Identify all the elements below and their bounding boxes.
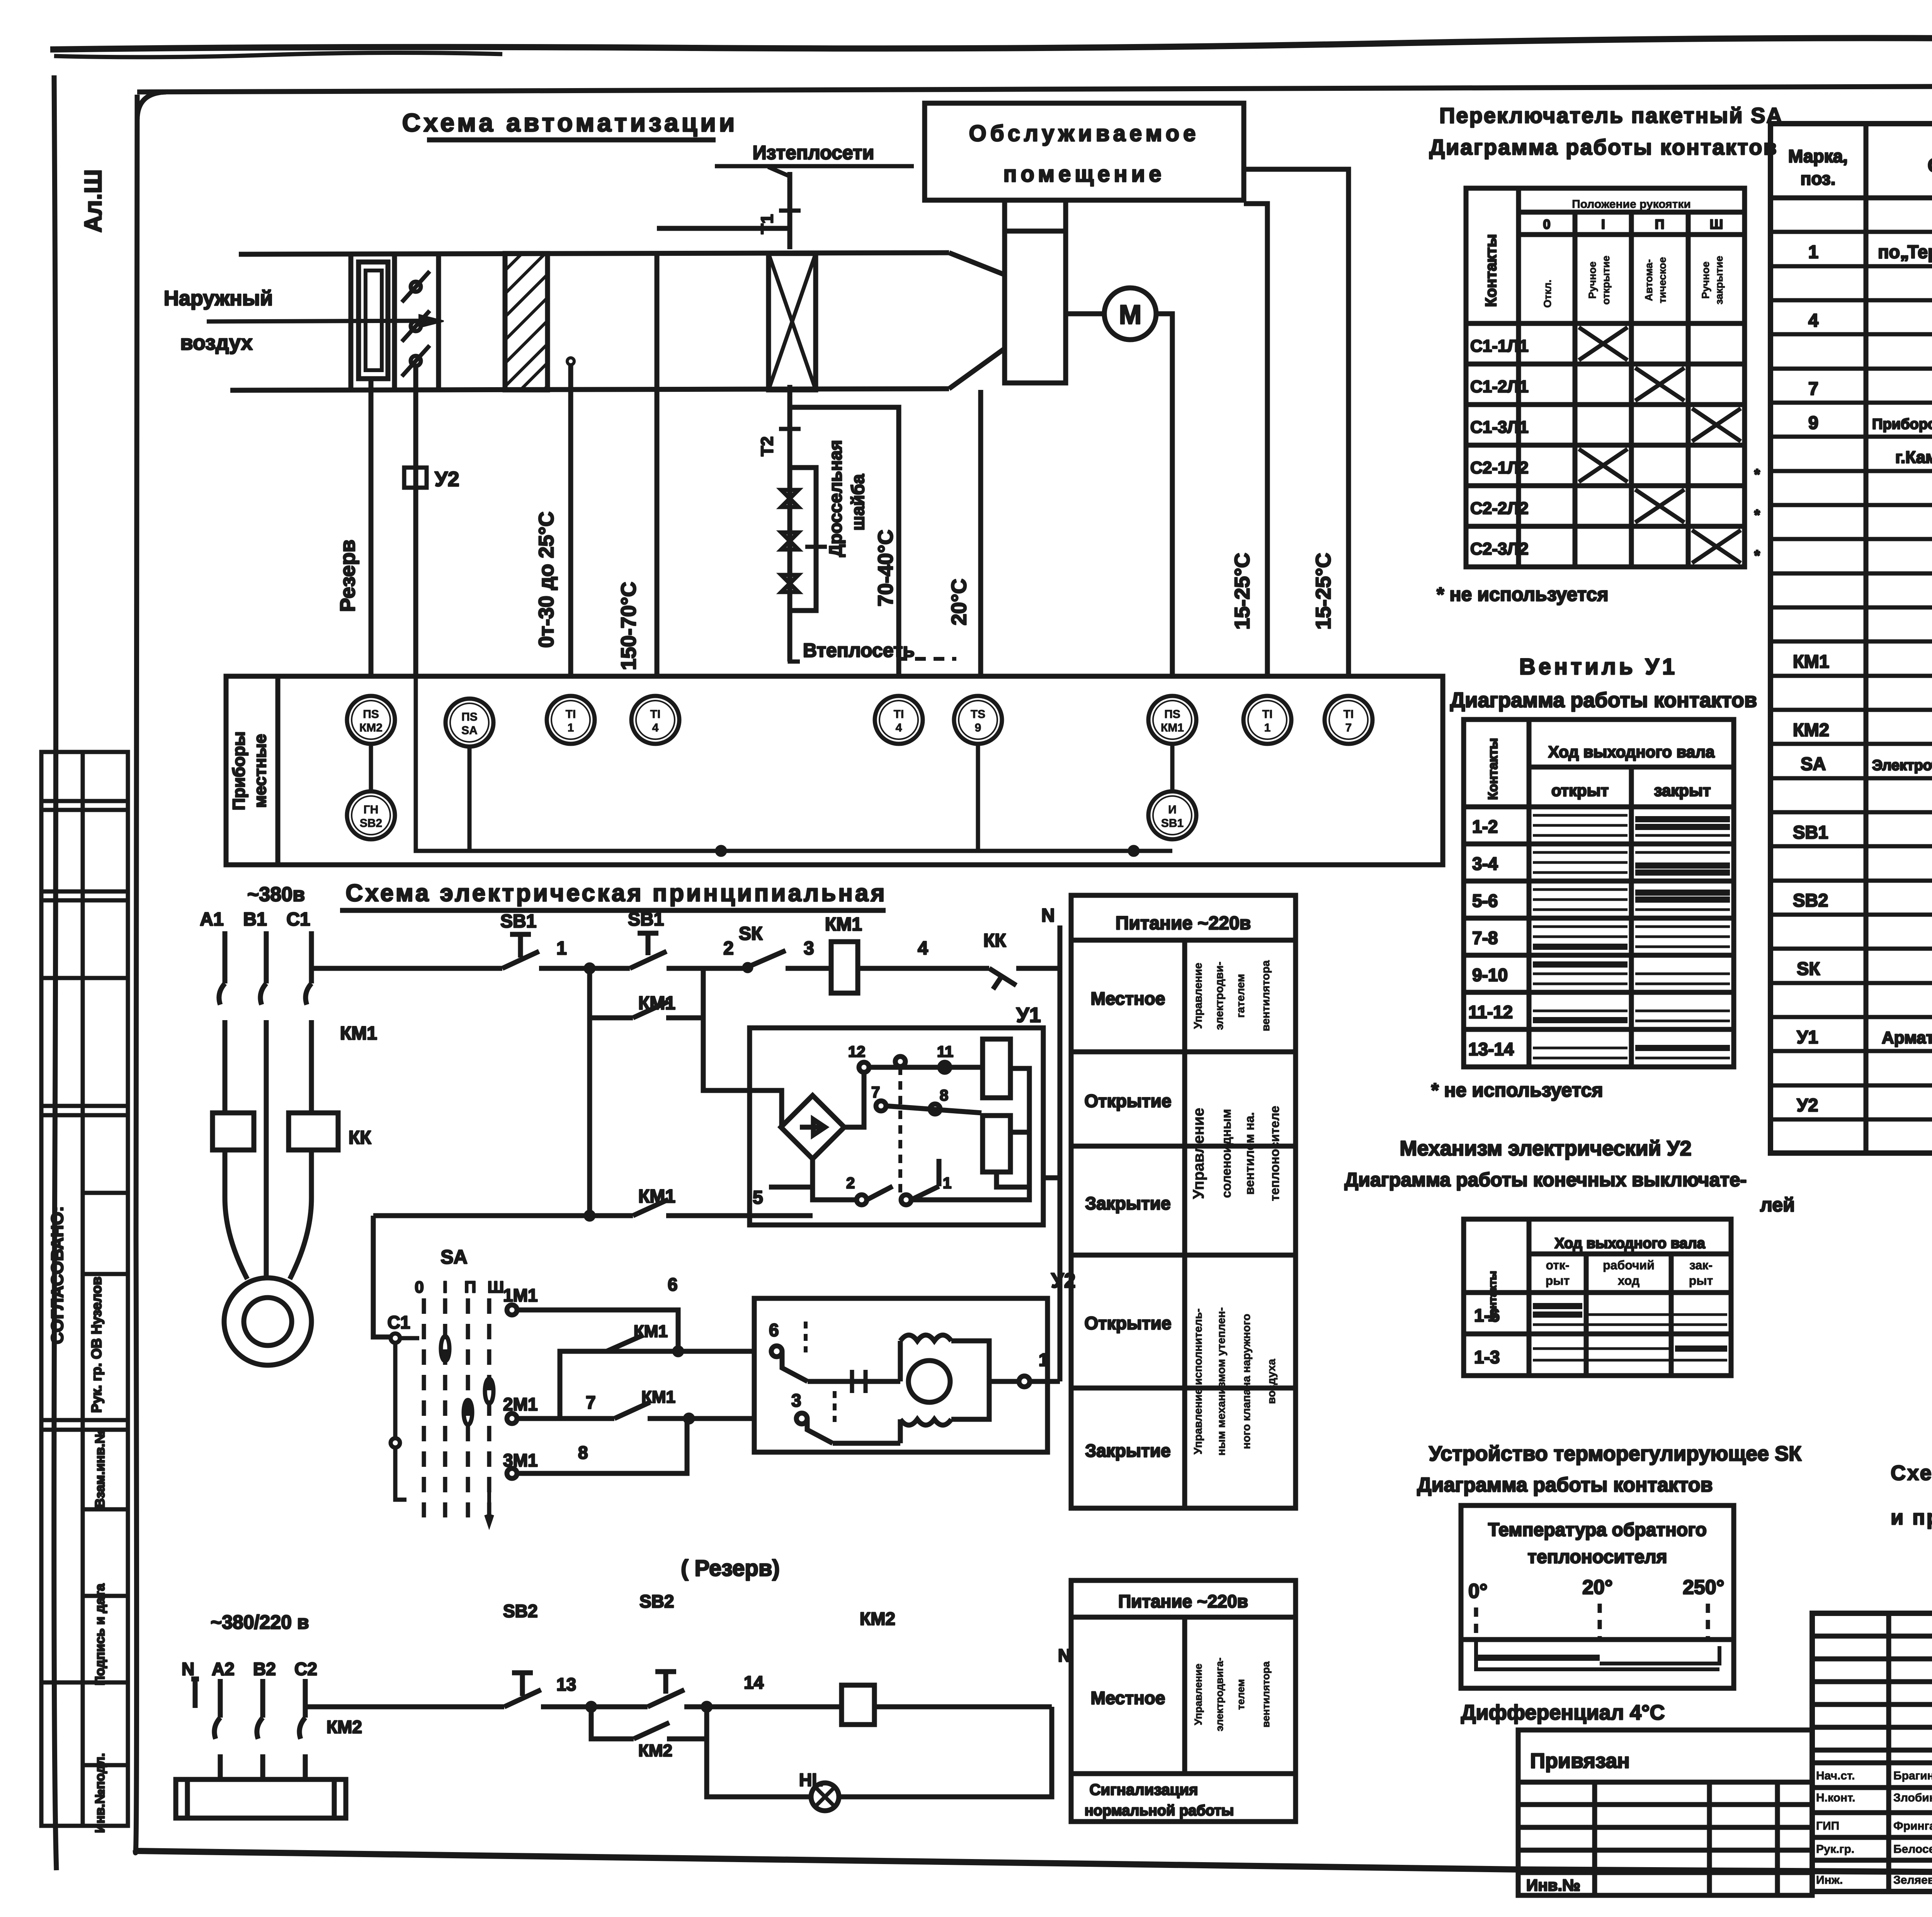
KK thermal contact <box>975 968 1060 989</box>
svg-text:вентилятора: вентилятора <box>1260 960 1272 1031</box>
svg-text:нормальной работы: нормальной работы <box>1085 1803 1234 1819</box>
spec rows content <box>1793 208 1932 1150</box>
svg-text:КМ2: КМ2 <box>1793 720 1829 740</box>
svg-text:Местное: Местное <box>1091 1688 1165 1708</box>
svg-text:SВ1: SВ1 <box>628 909 664 930</box>
svg-text:Сигнализация: Сигнализация <box>1090 1781 1198 1798</box>
terminal strip <box>176 1779 346 1818</box>
svg-text:1: 1 <box>1808 242 1818 262</box>
svg-text:4: 4 <box>918 938 928 959</box>
svg-text:Переключатель пакетный SА: Переключатель пакетный SА <box>1439 103 1783 128</box>
svg-text:вентилем на.: вентилем на. <box>1242 1112 1257 1195</box>
svg-text:*: * <box>1754 507 1760 523</box>
svg-text:С2-2Л2: С2-2Л2 <box>1470 499 1529 518</box>
bus wire inside box <box>371 676 1172 855</box>
svg-text:закрыт: закрыт <box>1654 781 1711 799</box>
svg-text:1: 1 <box>1039 1350 1049 1370</box>
svg-text:СОГЛАСОВАНО:: СОГЛАСОВАНО: <box>48 1206 67 1344</box>
svg-text:С2: С2 <box>294 1659 317 1679</box>
svg-text:С1-1Л1: С1-1Л1 <box>1470 337 1529 356</box>
svg-text:поз.: поз. <box>1801 168 1836 189</box>
blades with pivots <box>402 271 430 376</box>
svg-text:ТI: ТI <box>894 708 904 721</box>
phase B1 <box>260 931 266 1279</box>
svg-text:7: 7 <box>871 1084 880 1101</box>
svg-text:С2-3Л2: С2-3Л2 <box>1470 539 1529 558</box>
svg-text:теплоносителе: теплоносителе <box>1267 1106 1282 1201</box>
TI4-2 sensor riser <box>790 407 899 676</box>
svg-text:SК: SК <box>739 924 763 944</box>
svg-text:П: П <box>464 1278 476 1296</box>
svg-text:воздуха: воздуха <box>1265 1359 1278 1404</box>
svg-text:Ал.Ш: Ал.Ш <box>80 169 107 233</box>
svg-text:Схемы составлены для одной при: Схемы составлены для одной приточной сис… <box>1891 1461 1932 1485</box>
bottom contacts <box>857 1195 867 1205</box>
svg-text:Изтеплосети: Изтеплосети <box>753 142 874 163</box>
svg-text:Ручное: Ручное <box>1700 262 1711 299</box>
bypass with orifice <box>790 468 816 611</box>
svg-text:Привязан: Привязан <box>1530 1749 1630 1772</box>
valve Y1 box <box>750 1028 1043 1225</box>
svg-text:~380в: ~380в <box>247 883 305 906</box>
svg-text:Положение рукоятки: Положение рукоятки <box>1572 198 1691 211</box>
svg-text:Приборостроительный завод,: Приборостроительный завод, <box>1872 416 1932 432</box>
svg-text:Втеплосеть: Втеплосеть <box>803 640 915 661</box>
svg-text:SК: SК <box>1797 958 1820 979</box>
return pipe T2 with valves <box>787 385 793 662</box>
KM1 aux branch <box>590 968 703 1018</box>
phase C1 <box>306 931 311 1113</box>
svg-text:М: М <box>1119 299 1141 330</box>
svg-text:Открытие: Открытие <box>1084 1313 1171 1333</box>
connector duct room to fan <box>1002 200 1007 231</box>
svg-text:1: 1 <box>568 721 574 734</box>
Y2 actuator line <box>413 366 418 676</box>
KM2 coil <box>842 1685 874 1725</box>
svg-text:I: I <box>443 1278 447 1296</box>
svg-text:0: 0 <box>1543 217 1551 232</box>
svg-text:3-4: 3-4 <box>1472 854 1498 874</box>
svg-text:Температура обратного: Температура обратного <box>1488 1520 1707 1540</box>
svg-text:7-8: 7-8 <box>1472 928 1498 948</box>
svg-text:~380/220 в: ~380/220 в <box>211 1611 309 1633</box>
Y2 mechanism box <box>754 1298 1060 1452</box>
valve 1 <box>781 490 798 507</box>
svg-text:Устройство терморегулирующее S: Устройство терморегулирующее SК <box>1429 1442 1802 1465</box>
svg-text:вентилятора: вентилятора <box>1260 1661 1272 1727</box>
motor M big <box>224 1278 311 1365</box>
svg-text:С2-1Л2: С2-1Л2 <box>1470 458 1529 477</box>
header texts <box>1788 130 1932 189</box>
svg-text:по„Термоприбор“,: по„Термоприбор“, <box>1878 242 1932 262</box>
svg-text:ПS: ПS <box>461 711 478 723</box>
svg-text:Обозначение: Обозначение <box>1928 155 1932 176</box>
svg-text:250°: 250° <box>1683 1576 1725 1599</box>
damper reserve line <box>369 379 374 676</box>
svg-text:Открытие: Открытие <box>1084 1091 1171 1111</box>
branch 5 <box>373 1213 813 1218</box>
svg-text:1: 1 <box>943 1175 951 1192</box>
svg-text:Управление: Управление <box>1192 1664 1204 1725</box>
svg-text:А2: А2 <box>212 1659 235 1679</box>
svg-text:70-40°С: 70-40°С <box>874 530 897 607</box>
svg-text:Н.конт.: Н.конт. <box>1816 1791 1855 1804</box>
svg-text:Т1: Т1 <box>758 214 777 234</box>
svg-text:15-25°С: 15-25°С <box>1231 553 1254 630</box>
svg-text:6: 6 <box>769 1320 779 1340</box>
svg-text:SВ2: SВ2 <box>1793 890 1828 910</box>
svg-text:SВ1: SВ1 <box>1793 822 1828 842</box>
svg-text:КМ1: КМ1 <box>1161 721 1184 734</box>
svg-text:тическое: тическое <box>1656 257 1668 303</box>
TI7 wire <box>1244 169 1349 676</box>
svg-text:У1: У1 <box>1016 1004 1041 1027</box>
svg-text:КК: КК <box>349 1128 371 1148</box>
lamp branch <box>707 1707 811 1797</box>
junction <box>586 965 593 972</box>
svg-text:помещение: помещение <box>1003 162 1165 187</box>
svg-text:4: 4 <box>896 721 902 734</box>
TI1 riser <box>568 363 573 676</box>
svg-text:15-25°С: 15-25°С <box>1312 553 1335 630</box>
frame inner left line <box>135 95 137 1853</box>
fan casing <box>1005 231 1066 383</box>
svg-text:* не используется: * не используется <box>1431 1079 1603 1101</box>
svg-text:Автома-: Автома- <box>1643 259 1655 301</box>
svg-text:гателем: гателем <box>1235 974 1247 1018</box>
svg-text:Ручное: Ручное <box>1587 262 1598 299</box>
row lines <box>1770 232 1932 1119</box>
border top wavy line <box>50 37 1932 49</box>
svg-text:9-10: 9-10 <box>1472 965 1508 985</box>
instruments box <box>226 676 1443 865</box>
svg-text:электродвига-: электродвига- <box>1214 1657 1225 1731</box>
svg-text:У2: У2 <box>1797 1095 1818 1115</box>
svg-text:Закрытие: Закрытие <box>1085 1441 1170 1461</box>
N line <box>1058 925 1063 1381</box>
svg-text:12: 12 <box>848 1043 866 1060</box>
svg-text:5: 5 <box>753 1187 763 1208</box>
svg-text:Т2: Т2 <box>758 436 777 456</box>
svg-text:КМ2: КМ2 <box>327 1717 362 1737</box>
svg-text:Инж.: Инж. <box>1816 1874 1843 1886</box>
svg-text:1-3: 1-3 <box>1474 1347 1500 1367</box>
instrument circles <box>347 696 1372 839</box>
svg-text:Белосеева: Белосеева <box>1893 1843 1932 1856</box>
svg-text:Ход выходного вала: Ход выходного вала <box>1554 1235 1705 1252</box>
svg-text:* не используется: * не используется <box>1437 583 1609 605</box>
svg-text:Механизм электрический У2: Механизм электрический У2 <box>1400 1137 1691 1160</box>
SB1 stop button <box>502 934 539 968</box>
svg-text:закрытие: закрытие <box>1713 256 1725 304</box>
svg-text:Управление исполнитель-: Управление исполнитель- <box>1192 1308 1204 1454</box>
svg-text:г.Каменец-Подольский: г.Каменец-Подольский <box>1895 448 1932 467</box>
svg-text:Нач.ст.: Нач.ст. <box>1816 1769 1855 1782</box>
svg-text:3: 3 <box>791 1390 801 1410</box>
main rung <box>311 966 502 971</box>
svg-text:Брагинский: Брагинский <box>1893 1769 1932 1782</box>
svg-text:П: П <box>1655 217 1664 232</box>
svg-text:Контакты: Контакты <box>1486 738 1500 800</box>
svg-text:14: 14 <box>744 1672 764 1692</box>
svg-text:Диаграмма работы конечных выкл: Диаграмма работы конечных выключате- <box>1345 1169 1747 1191</box>
fan cone <box>949 253 1005 275</box>
svg-text:Вентиль У1: Вентиль У1 <box>1519 654 1678 679</box>
svg-text:*: * <box>1754 548 1760 564</box>
Y2 drive rows <box>507 1305 754 1478</box>
svg-text:SВ2: SВ2 <box>503 1601 537 1621</box>
svg-text:ГН: ГН <box>364 803 379 816</box>
svg-text:ТI: ТI <box>566 708 576 721</box>
svg-text:0т-30 до 25°С: 0т-30 до 25°С <box>535 512 558 648</box>
Y2 actuator box <box>404 468 427 488</box>
svg-text:КМ1: КМ1 <box>1793 651 1829 672</box>
svg-text:рабочий: рабочий <box>1603 1258 1655 1272</box>
svg-text:Управление: Управление <box>1190 1108 1207 1199</box>
svg-text:Рук.гр.: Рук.гр. <box>1816 1843 1854 1856</box>
frame bottom line <box>135 1851 1932 1876</box>
svg-text:Питание ~220в: Питание ~220в <box>1116 913 1251 934</box>
svg-text:9: 9 <box>975 721 981 734</box>
svg-text:ным механизмом утеплен-: ным механизмом утеплен- <box>1215 1307 1228 1456</box>
svg-text:20°: 20° <box>1582 1576 1613 1599</box>
TS9 riser <box>978 390 983 676</box>
svg-text:В2: В2 <box>253 1659 276 1679</box>
dashed link <box>898 1067 902 1198</box>
svg-text:7: 7 <box>1345 721 1352 734</box>
svg-text:0°: 0° <box>1468 1580 1488 1602</box>
svg-text:1: 1 <box>1264 721 1271 734</box>
TI1-2 wire <box>1244 204 1267 676</box>
row labels <box>1470 337 1760 564</box>
svg-text:0: 0 <box>415 1278 423 1296</box>
svg-text:ного клапана наружного: ного клапана наружного <box>1240 1314 1253 1449</box>
svg-text:отк-: отк- <box>1546 1258 1569 1272</box>
svg-text:150-70°С: 150-70°С <box>617 582 640 670</box>
svg-text:ТS: ТS <box>971 708 985 721</box>
main block <box>1812 1613 1932 1891</box>
svg-text:I: I <box>1601 217 1605 232</box>
damper (louver) <box>359 262 388 379</box>
SB1 start button <box>630 933 667 968</box>
terminals <box>859 1062 869 1072</box>
svg-text:лей: лей <box>1760 1194 1795 1216</box>
svg-text:КМ2: КМ2 <box>638 1741 672 1760</box>
motor circle <box>1104 288 1156 340</box>
damper section line <box>349 253 354 390</box>
svg-text:Резерв: Резерв <box>336 539 359 612</box>
svg-text:КМ1: КМ1 <box>638 1186 675 1207</box>
svg-text:8: 8 <box>578 1442 588 1463</box>
svg-text:5-6: 5-6 <box>1472 891 1498 911</box>
svg-text:Диаграмма работы контактов: Диаграмма работы контактов <box>1450 689 1757 712</box>
svg-text:Электротехнический завод,: Электротехнический завод, <box>1872 757 1932 774</box>
svg-text:Обслуживаемое: Обслуживаемое <box>969 121 1200 146</box>
KM2 aux <box>591 1707 707 1739</box>
svg-text:В1: В1 <box>243 909 267 930</box>
svg-text:Закрытие: Закрытие <box>1085 1193 1170 1213</box>
motor wire <box>1066 311 1104 316</box>
valve 3 <box>781 575 798 592</box>
svg-text:13-14: 13-14 <box>1468 1039 1514 1059</box>
svg-text:С1-2Л1: С1-2Л1 <box>1470 377 1529 396</box>
svg-text:*: * <box>1754 466 1760 483</box>
В теплосеть bracket <box>790 641 800 662</box>
svg-text:1: 1 <box>556 938 567 959</box>
KK heater elements <box>213 1113 254 1150</box>
svg-text:КМ1: КМ1 <box>825 914 862 935</box>
svg-text:и применимы для систем П2,П5: и применимы для систем П2,П5 <box>1891 1506 1932 1529</box>
svg-text:Наружный: Наружный <box>164 287 273 310</box>
SK contact <box>745 951 831 968</box>
left margin stamp column <box>41 752 128 1826</box>
svg-text:КМ1: КМ1 <box>340 1023 377 1044</box>
valve 2 <box>781 532 798 549</box>
svg-text:телем: телем <box>1235 1679 1247 1710</box>
svg-text:воздух: воздух <box>180 331 252 354</box>
svg-text:открыт: открыт <box>1551 781 1609 799</box>
svg-text:SВ1: SВ1 <box>500 911 536 932</box>
svg-text:Ш: Ш <box>488 1278 504 1296</box>
svg-text:Арматурный завод,: Арматурный завод, <box>1882 1028 1932 1047</box>
svg-text:рыт: рыт <box>1689 1274 1713 1288</box>
svg-text:КМ1: КМ1 <box>638 993 675 1014</box>
svg-text:Местное: Местное <box>1091 988 1165 1009</box>
svg-text:Ш: Ш <box>1710 217 1723 232</box>
heater X-box <box>769 253 816 390</box>
svg-text:Марка,: Марка, <box>1788 146 1848 166</box>
svg-text:N: N <box>182 1659 194 1679</box>
svg-text:3М1: 3М1 <box>503 1450 537 1470</box>
capacitor <box>827 1370 889 1393</box>
svg-text:SВ1: SВ1 <box>1161 817 1184 830</box>
svg-text:3: 3 <box>804 938 814 959</box>
svg-text:открытие: открытие <box>1600 256 1612 305</box>
phase A1 <box>219 931 225 1113</box>
svg-text:И: И <box>1168 803 1177 816</box>
svg-text:7: 7 <box>1808 378 1818 399</box>
SA switch dashed <box>391 1298 493 1524</box>
svg-text:Дифференциал 4°С: Дифференциал 4°С <box>1461 1701 1665 1724</box>
svg-text:КМ1: КМ1 <box>634 1322 668 1341</box>
svg-text:6: 6 <box>668 1274 678 1294</box>
svg-text:ТI: ТI <box>1262 708 1273 721</box>
svg-text:1-6: 1-6 <box>1474 1305 1500 1325</box>
svg-text:Откл.: Откл. <box>1542 280 1553 308</box>
svg-text:КМ2: КМ2 <box>359 721 383 734</box>
svg-text:теплоносителя: теплоносителя <box>1528 1547 1667 1567</box>
svg-text:Схема автоматизации: Схема автоматизации <box>402 108 738 137</box>
svg-text:Приборы: Приборы <box>230 731 248 810</box>
N tick <box>191 1679 199 1708</box>
svg-text:Фрингауз: Фрингауз <box>1893 1820 1932 1832</box>
svg-text:SВ2: SВ2 <box>639 1591 674 1611</box>
svg-text:Злобинский: Злобинский <box>1893 1791 1932 1804</box>
svg-text:У1: У1 <box>1797 1027 1818 1047</box>
svg-text:11: 11 <box>937 1043 953 1060</box>
svg-text:шайба: шайба <box>848 474 868 531</box>
svg-text:ПS: ПS <box>363 708 379 721</box>
duct top wall <box>239 253 949 254</box>
svg-text:N: N <box>1041 905 1055 926</box>
svg-text:С1: С1 <box>388 1312 410 1332</box>
TI4 riser / heater boundary <box>655 253 660 676</box>
frame top line <box>137 84 1932 92</box>
svg-text:Инв.№подл.: Инв.№подл. <box>93 1753 107 1833</box>
svg-text:SА: SА <box>440 1246 467 1268</box>
svg-text:SВ2: SВ2 <box>360 817 382 830</box>
rung <box>305 1704 504 1709</box>
privyazan box <box>1518 1730 1812 1895</box>
svg-text:2: 2 <box>846 1175 855 1192</box>
phase drops with KM2 contacts <box>214 1679 220 1779</box>
contact state bars <box>1533 815 1730 1058</box>
svg-text:Схема электрическая принципиал: Схема электрическая принципиальная <box>345 880 887 907</box>
svg-text:Инв.№: Инв.№ <box>1526 1876 1580 1894</box>
KM1 coil <box>831 942 858 993</box>
svg-text:Контакты: Контакты <box>1483 234 1500 307</box>
rotated labels <box>336 214 1335 670</box>
svg-text:У2: У2 <box>435 468 459 491</box>
svg-text:Взам.инв.№: Взам.инв.№ <box>93 1429 107 1508</box>
svg-text:С1: С1 <box>286 909 310 930</box>
svg-text:Питание ~220в: Питание ~220в <box>1118 1591 1248 1611</box>
svg-text:С1-3Л1: С1-3Л1 <box>1470 418 1529 437</box>
svg-text:ПS: ПS <box>1164 708 1180 721</box>
instrument circle labels <box>359 708 1354 830</box>
svg-text:Диаграмма работы контактов: Диаграмма работы контактов <box>1429 135 1778 159</box>
svg-text:Рук. гр. ОВ Нузелов: Рук. гр. ОВ Нузелов <box>88 1277 104 1413</box>
svg-text:( Резерв): ( Резерв) <box>681 1556 780 1581</box>
svg-text:4: 4 <box>652 721 659 734</box>
frame left outer border <box>54 75 56 1870</box>
motor <box>908 1361 950 1402</box>
air intake arrow <box>207 321 437 321</box>
svg-text:7: 7 <box>586 1392 596 1412</box>
filter hatched <box>505 253 548 390</box>
svg-text:11-12: 11-12 <box>1468 1002 1513 1022</box>
terminal wires <box>844 1072 864 1127</box>
labels upper schematic <box>200 905 1054 1208</box>
corner round <box>137 92 166 120</box>
arrow from label to pipe <box>768 167 791 177</box>
SB2 stop <box>504 1673 541 1707</box>
svg-text:Управление: Управление <box>1192 963 1204 1029</box>
svg-text:КМ1: КМ1 <box>641 1388 675 1407</box>
svg-text:КК: КК <box>983 930 1006 951</box>
svg-text:SА: SА <box>1801 754 1826 774</box>
SB2 start <box>648 1672 684 1707</box>
dashed leader <box>896 657 956 661</box>
svg-text:ход: ход <box>1618 1274 1639 1288</box>
svg-text:SА: SА <box>461 724 478 737</box>
svg-text:1-2: 1-2 <box>1472 816 1498 837</box>
heat supply pipe T1 <box>787 172 793 249</box>
svg-text:8: 8 <box>940 1087 948 1104</box>
svg-text:электродви-: электродви- <box>1213 962 1226 1030</box>
X marks <box>1579 327 1741 563</box>
relay coils <box>983 1039 1010 1098</box>
svg-text:Ход выходного вала: Ход выходного вала <box>1548 743 1715 761</box>
svg-text:Зеляева: Зеляева <box>1893 1874 1932 1886</box>
svg-text:КМ2: КМ2 <box>860 1609 895 1629</box>
left margin texts <box>48 1206 107 1833</box>
svg-text:1М1: 1М1 <box>503 1285 537 1305</box>
blade section lines <box>392 253 397 390</box>
rectifier diamond <box>781 1095 844 1159</box>
duct bottom wall <box>230 389 949 390</box>
windings <box>900 1335 951 1341</box>
